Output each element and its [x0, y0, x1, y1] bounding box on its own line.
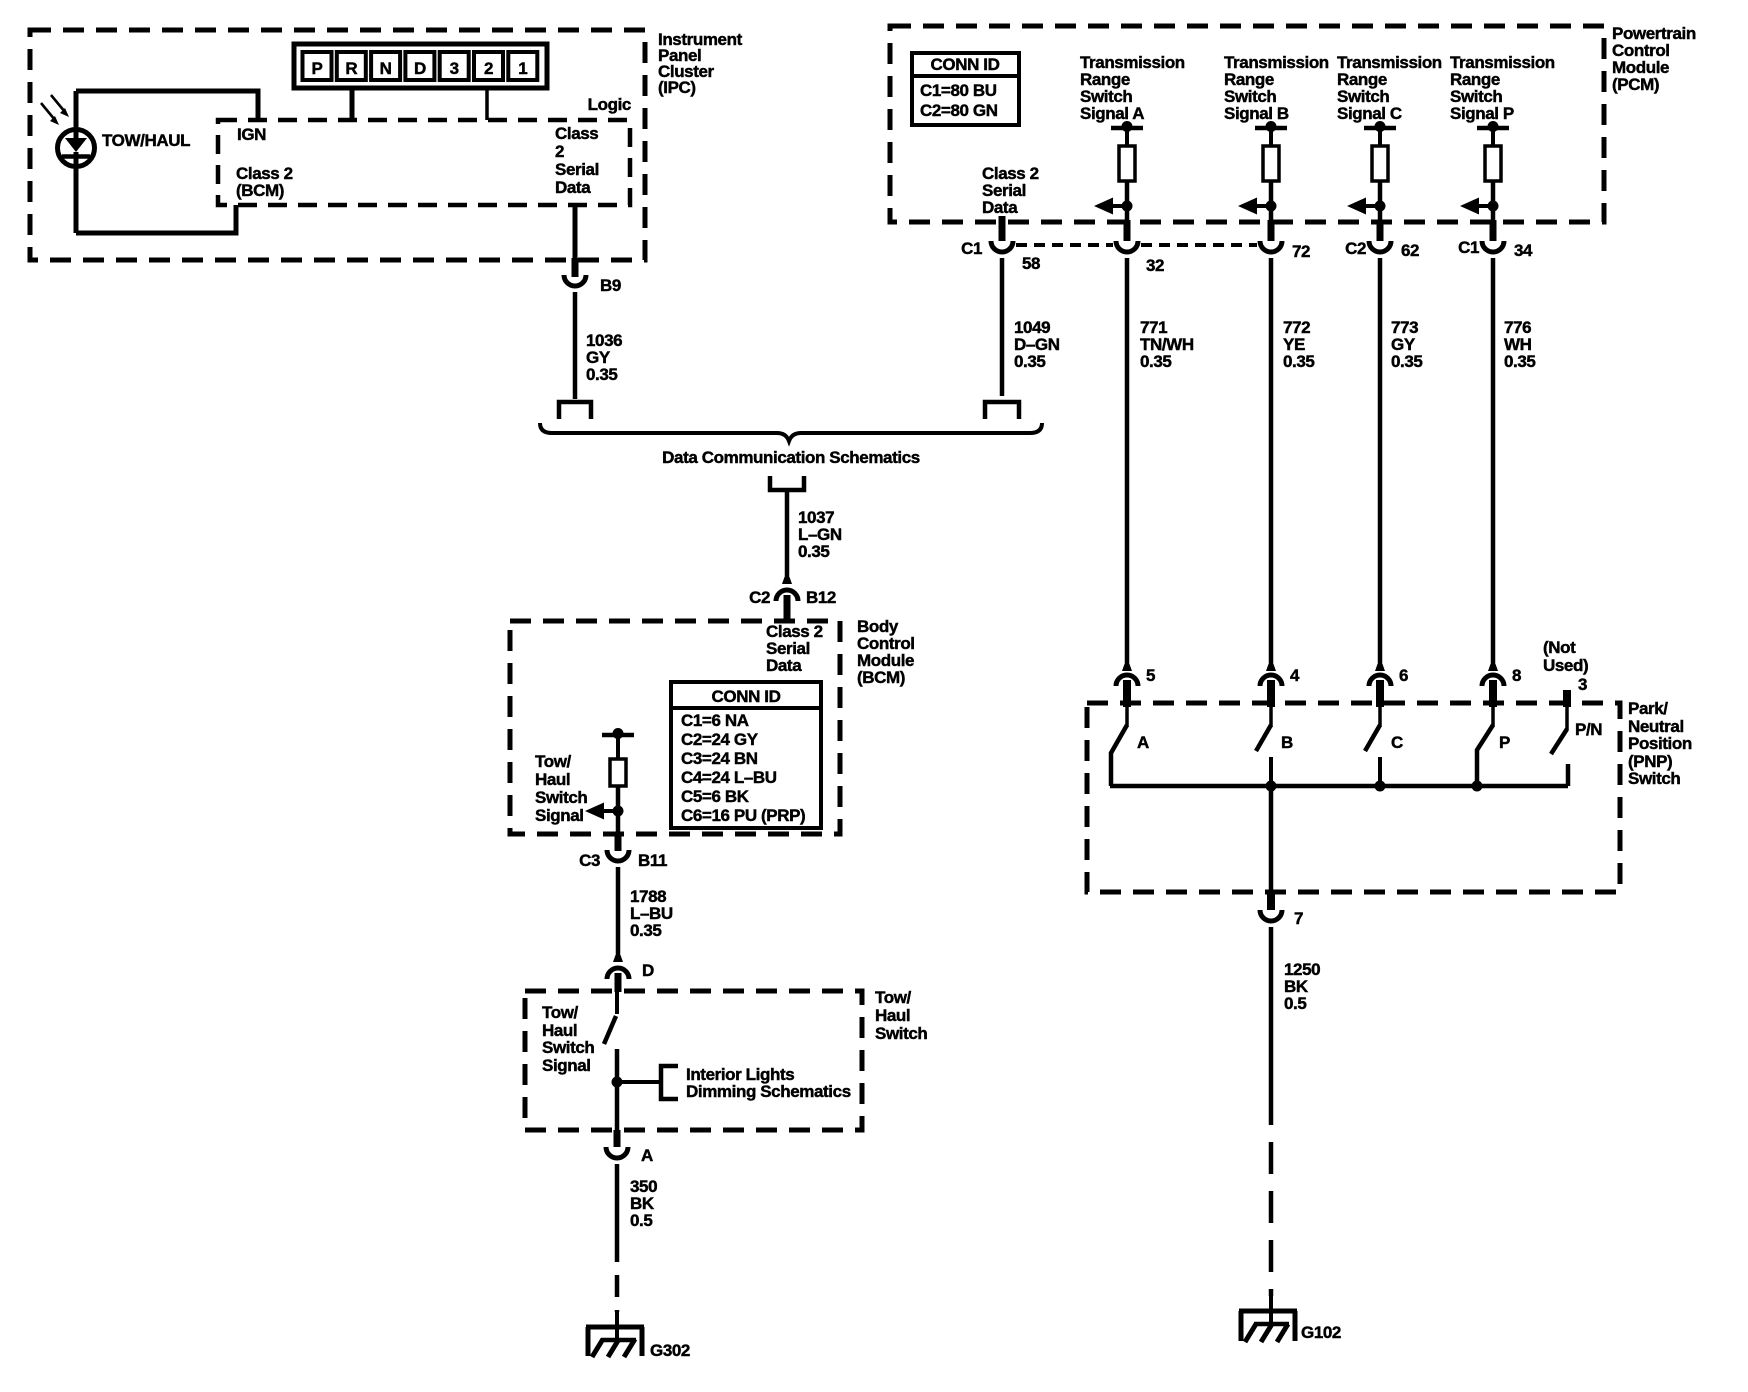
label Class 2 Serial Data (BCM): [766, 622, 823, 675]
module box: Body Control Module (BCM): [510, 621, 840, 834]
svg-text:Haul: Haul: [535, 770, 570, 789]
svg-text:Signal C: Signal C: [1337, 104, 1402, 123]
label G102: [1301, 1323, 1341, 1342]
svg-text:0.35: 0.35: [630, 921, 662, 940]
svg-text:CONN ID: CONN ID: [712, 687, 781, 706]
svg-text:CONN ID: CONN ID: [931, 55, 1000, 74]
svg-text:C: C: [1391, 733, 1403, 752]
connector pin 8 (PNP): [1482, 675, 1504, 707]
label B11: [638, 851, 667, 870]
bus bar (PNP common): [1110, 784, 1568, 789]
label 34: [1514, 241, 1533, 260]
wire PRND321 left stub: [350, 88, 355, 120]
svg-text:2: 2: [484, 59, 493, 78]
connector D: [607, 968, 629, 992]
svg-text:Switch: Switch: [1628, 769, 1680, 788]
ground G102: [1239, 1311, 1297, 1342]
svg-text:62: 62: [1401, 241, 1419, 260]
svg-text:C2=80 GN: C2=80 GN: [920, 101, 998, 120]
svg-text:0.35: 0.35: [1283, 352, 1315, 371]
label Tow/Haul Switch Signal (BCM): [535, 752, 587, 825]
resistor PCM signal P: [1477, 121, 1509, 220]
svg-text:C2: C2: [749, 588, 770, 607]
switch contact A: [1111, 707, 1127, 786]
svg-text:C1: C1: [961, 239, 982, 258]
label 3: [1578, 675, 1587, 694]
wire 1037 L-GN: [782, 490, 792, 584]
wire 350 BK dashed: [615, 1240, 620, 1340]
switch contact B: [1256, 707, 1271, 786]
svg-text:C5=6 BK: C5=6 BK: [681, 787, 750, 806]
label 6: [1399, 666, 1408, 685]
svg-text:6: 6: [1399, 666, 1408, 685]
svg-text:C2: C2: [1345, 239, 1366, 258]
label 32: [1146, 256, 1164, 275]
svg-text:C1=80 BU: C1=80 BU: [920, 81, 997, 100]
svg-text:C1: C1: [1458, 238, 1479, 257]
label 776 WH 0.35: [1504, 318, 1536, 371]
label C2 (pin 62): [1345, 239, 1366, 258]
junction node C: [1375, 781, 1386, 792]
LED light arrows: [41, 95, 69, 125]
svg-text:C1=6 NA: C1=6 NA: [681, 711, 749, 730]
connector pin 4 (PNP): [1260, 675, 1282, 707]
svg-text:Haul: Haul: [875, 1006, 910, 1025]
module box: Powertrain Control Module (PCM): [890, 26, 1604, 222]
svg-text:A: A: [641, 1146, 653, 1165]
svg-text:58: 58: [1022, 254, 1040, 273]
label Transmission Range Switch Signal P: [1450, 53, 1555, 123]
svg-text:Dimming Schematics: Dimming Schematics: [686, 1082, 851, 1101]
label Class 2 Serial Data (PCM): [982, 164, 1039, 217]
brace data communication bus: [540, 423, 1042, 441]
label Class 2 Serial Data (IPC): [555, 124, 599, 197]
label C1 (pin 58): [961, 239, 982, 258]
label 1788 L-BU 0.35: [630, 887, 673, 940]
arrow tow/haul switch signal (BCM): [585, 803, 624, 820]
svg-text:Tow/: Tow/: [542, 1003, 579, 1022]
wire LED anode loop to IGN: [76, 91, 258, 141]
same-connector dashed line: [1016, 243, 1257, 247]
svg-text:2: 2: [555, 142, 564, 161]
svg-text:Logic: Logic: [588, 95, 631, 114]
svg-text:8: 8: [1512, 666, 1521, 685]
svg-text:0.35: 0.35: [1504, 352, 1536, 371]
off-page connector (1049 to data bus): [985, 402, 1019, 419]
module box: Instrument Panel Cluster (IPC): [30, 30, 645, 260]
wire 350 BK solid: [615, 1164, 620, 1240]
resistor PCM signal B: [1255, 121, 1287, 220]
wire 771 TN/WH: [1122, 258, 1132, 671]
pin IGN: [237, 125, 266, 144]
svg-text:B11: B11: [638, 851, 667, 870]
svg-text:G102: G102: [1301, 1323, 1341, 1342]
label C1 (pin 34): [1458, 238, 1479, 257]
ground G302: [586, 1327, 644, 1357]
arrow PCM signal C: [1347, 198, 1386, 215]
label Tow/Haul Switch Signal (switch): [542, 1003, 594, 1075]
junction node interior lights tap: [612, 1077, 623, 1088]
svg-text:72: 72: [1292, 242, 1310, 261]
label 7: [1294, 909, 1303, 928]
PRND321 gear position indicator: [294, 44, 547, 88]
switch contact P: [1477, 707, 1493, 786]
svg-text:Data: Data: [555, 178, 591, 197]
svg-text:P/N: P/N: [1575, 720, 1602, 739]
wire 1250 BK solid: [1269, 927, 1274, 1093]
wire 773 GY: [1375, 258, 1385, 671]
svg-text:0.35: 0.35: [1014, 352, 1046, 371]
wire 772 YE: [1266, 258, 1276, 671]
label 1037 L-GN 0.35: [798, 508, 842, 561]
connector A pin: [606, 1130, 628, 1158]
svg-text:Tow/: Tow/: [875, 988, 912, 1007]
svg-text:(BCM): (BCM): [236, 181, 284, 200]
connector 7 pin: [1260, 892, 1282, 921]
label Body Control Module (BCM): [857, 617, 915, 687]
svg-text:3: 3: [450, 59, 459, 78]
svg-text:N: N: [380, 59, 392, 78]
label Interior Lights Dimming Schematics: [686, 1065, 851, 1101]
svg-text:B: B: [1281, 733, 1293, 752]
svg-text:A: A: [1137, 733, 1149, 752]
label Class 2 (BCM): [236, 164, 293, 200]
wire 1788 L-BU: [613, 867, 623, 962]
switch contact C: [1365, 707, 1380, 786]
label A: [641, 1146, 653, 1165]
svg-text:5: 5: [1146, 666, 1155, 685]
svg-text:3: 3: [1578, 675, 1587, 694]
label 5: [1146, 666, 1155, 685]
label 1250 BK 0.5: [1284, 960, 1320, 1013]
label 1036 GY 0.35: [586, 331, 622, 384]
off-page connector interior lights: [661, 1066, 678, 1099]
arrow PCM signal P: [1460, 198, 1499, 215]
svg-text:P: P: [312, 59, 323, 78]
junction node B: [1266, 781, 1277, 792]
label 773 GY 0.35: [1391, 318, 1423, 371]
svg-text:Position: Position: [1628, 734, 1692, 753]
svg-text:Switch: Switch: [542, 1038, 594, 1057]
connector C2 B12: [776, 590, 798, 621]
svg-text:Signal B: Signal B: [1224, 104, 1289, 123]
junction node P: [1472, 781, 1483, 792]
arrow PCM signal A: [1094, 198, 1133, 215]
CONN ID table (BCM): [671, 682, 821, 828]
wire branch to interior lights: [617, 1080, 661, 1084]
switch blade Tow/Haul: [604, 991, 617, 1044]
connector C3 B11: [607, 834, 629, 861]
label 772 YE 0.35: [1283, 318, 1315, 371]
label C (PNP): [1391, 733, 1403, 752]
switch contact P/N: [1551, 707, 1568, 786]
label P (PNP): [1499, 733, 1510, 752]
label 350 BK 0.5: [630, 1177, 657, 1230]
connector B9 pin: [564, 258, 586, 286]
svg-text:R: R: [345, 59, 357, 78]
wire class 2 serial data (PCM internal): [999, 216, 1006, 241]
svg-text:Data Communication Schematics: Data Communication Schematics: [662, 448, 920, 467]
label Tow/Haul Switch (module): [875, 988, 927, 1043]
label TOW/HAUL: [102, 131, 190, 150]
svg-text:Signal: Signal: [542, 1056, 591, 1075]
label Data Communication Schematics: [662, 448, 920, 467]
label 58: [1022, 254, 1040, 273]
label Logic: [588, 95, 631, 114]
label Transmission Range Switch Signal A: [1080, 53, 1185, 123]
svg-text:P: P: [1499, 733, 1510, 752]
svg-text:Data: Data: [766, 656, 802, 675]
label 8: [1512, 666, 1521, 685]
label D: [642, 961, 654, 980]
svg-text:C4=24 L–BU: C4=24 L–BU: [681, 768, 777, 787]
label 771 TN/WH 0.35: [1140, 318, 1194, 371]
svg-text:Switch: Switch: [875, 1024, 927, 1043]
connector pin 6 (PNP): [1369, 675, 1391, 707]
connector pin 72: [1260, 220, 1282, 252]
svg-text:0.35: 0.35: [1140, 352, 1172, 371]
svg-text:1: 1: [518, 59, 527, 78]
connector C1 pin 58: [991, 241, 1013, 252]
svg-text:(BCM): (BCM): [857, 668, 905, 687]
svg-text:Tow/: Tow/: [535, 752, 572, 771]
module box: Tow/Haul Switch: [525, 991, 862, 1130]
svg-text:C6=16 PU (PRP): C6=16 PU (PRP): [681, 806, 805, 825]
wire PNP common to pin 7: [1269, 786, 1274, 892]
svg-text:D: D: [642, 961, 654, 980]
svg-text:(PCM): (PCM): [1612, 75, 1659, 94]
svg-text:D: D: [414, 59, 426, 78]
label 1049 D-GN 0.35: [1014, 318, 1060, 371]
wire class 2 serial data (IPC internal): [573, 205, 578, 259]
label C3: [579, 851, 600, 870]
wire 1049 D-GN: [1000, 258, 1005, 396]
svg-text:7: 7: [1294, 909, 1303, 928]
off-page connector (bus to 1037): [770, 476, 804, 490]
wire 776 WH: [1488, 258, 1498, 671]
svg-text:C2=24 GY: C2=24 GY: [681, 730, 759, 749]
label C2: [749, 588, 770, 607]
label Instrument Panel Cluster (IPC): [658, 30, 743, 97]
module box: Park/Neutral Position (PNP) Switch: [1087, 703, 1620, 892]
svg-text:0.5: 0.5: [630, 1211, 652, 1230]
label (Not Used): [1543, 638, 1588, 675]
label 62: [1401, 241, 1419, 260]
resistor (BCM pull-up): [610, 735, 626, 834]
logic block (IPC): [218, 120, 630, 205]
label G302: [650, 1341, 690, 1360]
wire below switch: [615, 1049, 620, 1130]
off-page connector (1036 to data bus): [559, 402, 591, 419]
svg-text:32: 32: [1146, 256, 1164, 275]
svg-text:0.35: 0.35: [586, 365, 618, 384]
svg-text:(Not: (Not: [1543, 638, 1576, 657]
svg-text:C3: C3: [579, 851, 600, 870]
svg-text:Data: Data: [982, 198, 1018, 217]
connector pin 34: [1482, 220, 1504, 252]
svg-text:Signal: Signal: [535, 806, 584, 825]
label B9: [600, 276, 621, 295]
indicator lamp TOW/HAUL (LED): [58, 130, 95, 167]
label B (PNP): [1281, 733, 1293, 752]
label P/N: [1575, 720, 1602, 739]
CONN ID table (PCM): [912, 53, 1019, 125]
svg-text:Used): Used): [1543, 656, 1588, 675]
pin 3: [1563, 690, 1571, 707]
svg-text:0.35: 0.35: [1391, 352, 1423, 371]
svg-text:B12: B12: [806, 588, 836, 607]
svg-text:Signal A: Signal A: [1080, 104, 1144, 123]
svg-text:(IPC): (IPC): [658, 78, 696, 97]
svg-text:Signal P: Signal P: [1450, 104, 1514, 123]
svg-text:Park/: Park/: [1628, 699, 1668, 718]
BCM internal terminal bar: [602, 728, 634, 739]
svg-text:Class: Class: [555, 124, 598, 143]
svg-text:34: 34: [1514, 241, 1533, 260]
svg-text:TOW/HAUL: TOW/HAUL: [102, 131, 190, 150]
svg-text:4: 4: [1290, 666, 1300, 685]
svg-text:IGN: IGN: [237, 125, 266, 144]
label 4: [1290, 666, 1300, 685]
connector pin 32: [1116, 220, 1138, 252]
svg-text:0.35: 0.35: [798, 542, 830, 561]
connector pin 5 (PNP): [1116, 675, 1138, 707]
wire 1250 BK dashed: [1269, 1093, 1274, 1325]
svg-text:G302: G302: [650, 1341, 690, 1360]
label Park/Neutral Position (PNP) Switch: [1628, 699, 1692, 788]
label Powertrain Control Module (PCM): [1612, 24, 1696, 94]
resistor PCM signal A: [1111, 121, 1143, 220]
svg-text:Serial: Serial: [555, 160, 599, 179]
wire LED cathode loop to logic: [76, 152, 236, 233]
label 72: [1292, 242, 1310, 261]
svg-text:B9: B9: [600, 276, 621, 295]
arrow PCM signal B: [1238, 198, 1277, 215]
svg-text:C3=24 BN: C3=24 BN: [681, 749, 758, 768]
label B12: [806, 588, 836, 607]
svg-text:0.5: 0.5: [1284, 994, 1306, 1013]
label Transmission Range Switch Signal C: [1337, 53, 1442, 123]
wire 1036 GY: [573, 292, 578, 399]
resistor PCM signal C: [1364, 121, 1396, 220]
label A (PNP): [1137, 733, 1149, 752]
connector pin 62: [1369, 220, 1391, 252]
svg-text:Switch: Switch: [535, 788, 587, 807]
wire PRND321 right stub: [485, 88, 489, 120]
label Transmission Range Switch Signal B: [1224, 53, 1329, 123]
